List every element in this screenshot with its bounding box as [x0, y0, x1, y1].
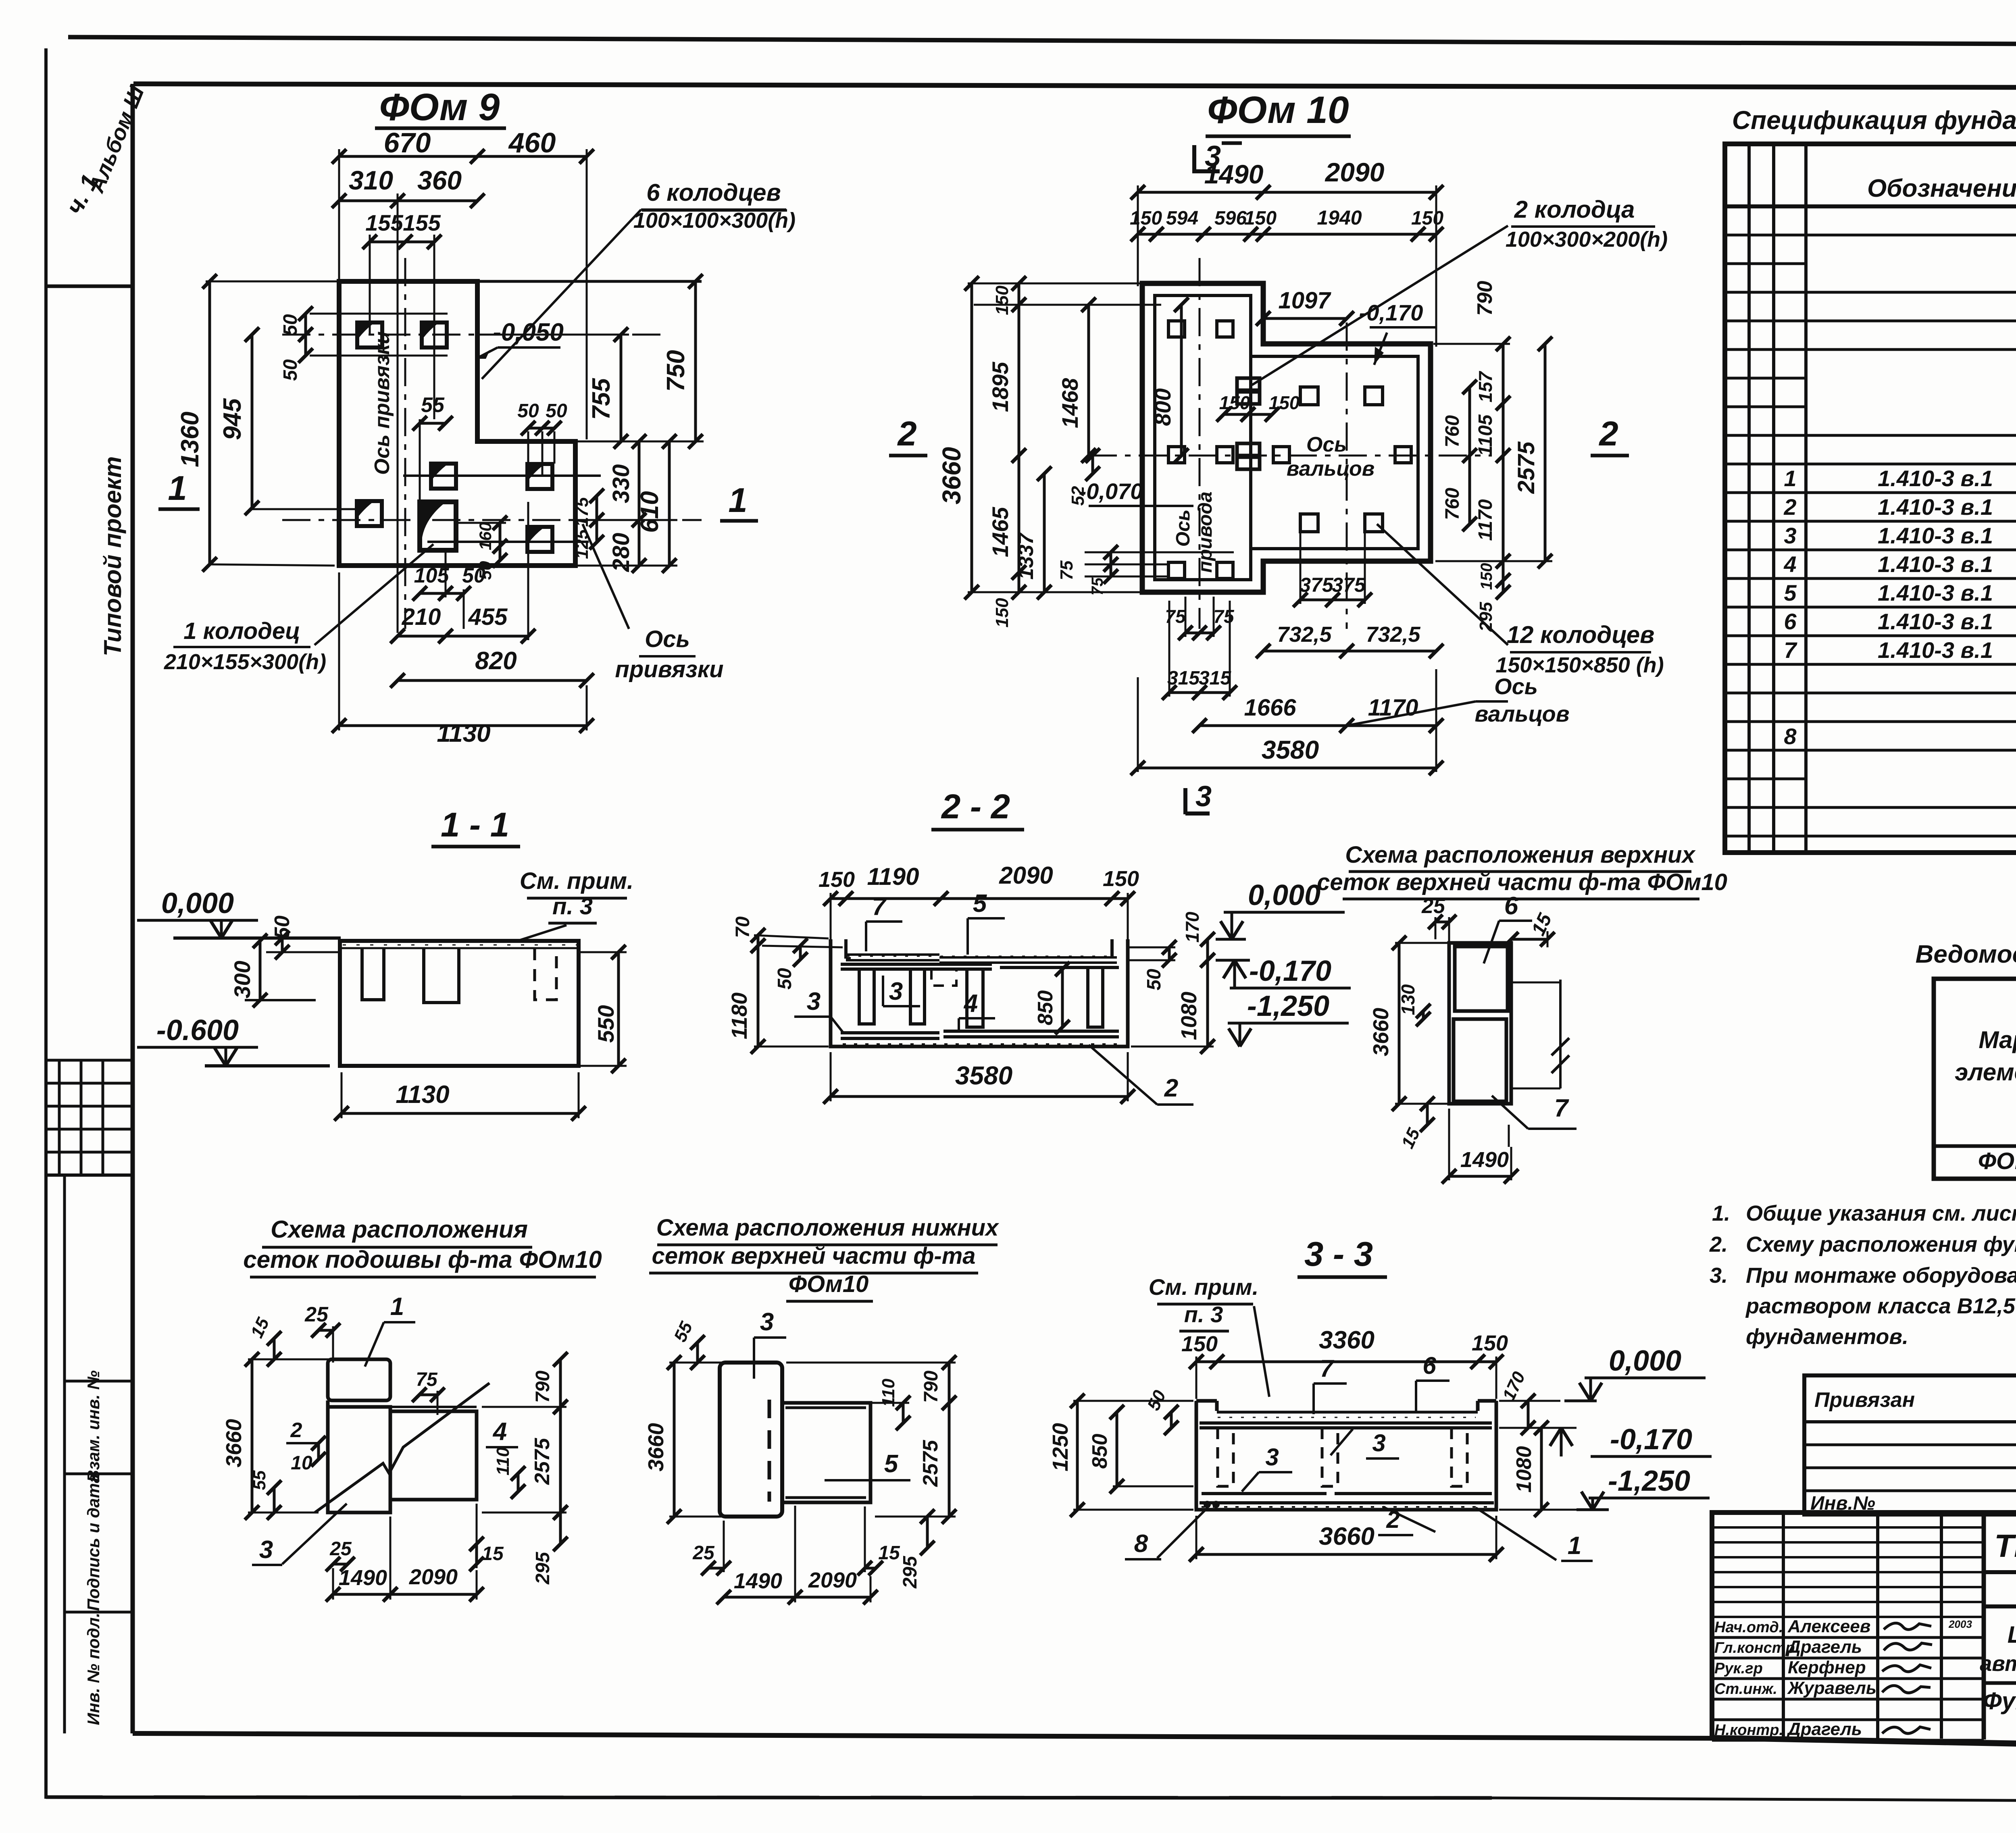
- plan FOm10 label 2 wells leader: [1252, 226, 1508, 385]
- svg-text:См. прим.: См. прим.: [520, 868, 633, 894]
- sheet outer left edge: [44, 48, 48, 1799]
- scheme upper meshes dim 3660: [1398, 943, 1401, 1104]
- section 3-3 dim 3660 bottom: [1196, 1553, 1496, 1556]
- svg-text:170: 170: [1182, 911, 1203, 942]
- section 2-2 left wall inner: [844, 939, 848, 959]
- svg-text:7: 7: [1320, 1355, 1334, 1382]
- scheme sole meshes dim 25 top: [319, 1329, 333, 1332]
- svg-text:130: 130: [1397, 984, 1418, 1015]
- svg-text:Привязан: Привязан: [1814, 1388, 1915, 1412]
- svg-text:2090: 2090: [409, 1565, 458, 1589]
- section 1-1 dim 50 top: [281, 938, 284, 952]
- section 2-2 dim 1180 left: [757, 946, 760, 1046]
- sheet outer bottom edge: [46, 1797, 1492, 1798]
- scheme sole meshes dim 295 right: [559, 1513, 562, 1544]
- plan FOm9 well square 1: [357, 322, 382, 347]
- plan FOm10 dim 150/594/596/150/1940/150: [1138, 233, 1436, 236]
- section 3-3 right dim 1080: [1540, 1428, 1543, 1510]
- svg-text:5: 5: [1784, 580, 1797, 605]
- svg-text:1130: 1130: [437, 720, 490, 747]
- scheme sole meshes dim 790 right: [559, 1359, 562, 1407]
- svg-text:160: 160: [476, 522, 495, 550]
- svg-text:1666: 1666: [1244, 695, 1296, 721]
- svg-text:150: 150: [1103, 867, 1139, 891]
- section 3-3 leader from label: [1254, 1306, 1269, 1397]
- svg-text:50: 50: [280, 314, 301, 336]
- plan FOm10 section mark 3 top: [1192, 145, 1196, 173]
- svg-text:100×100×300(h): 100×100×300(h): [633, 208, 796, 233]
- svg-text:Гл.констр: Гл.констр: [1714, 1639, 1795, 1656]
- svg-text:Н.контр.: Н.контр.: [1714, 1722, 1783, 1739]
- svg-text:0,000: 0,000: [161, 887, 234, 920]
- section 2-2 dim 70 left: [757, 935, 760, 946]
- svg-text:Ведомость расхода стали на эле: Ведомость расхода стали на элемент, kг: [1916, 940, 2016, 968]
- svg-text:Фундаменты ФОм9;: Фундаменты ФОм9;: [1983, 1687, 2016, 1714]
- section 3-3 label 2 leader: [1383, 1507, 1435, 1532]
- svg-text:945: 945: [219, 398, 246, 440]
- svg-text:-0.600: -0.600: [156, 1014, 239, 1046]
- svg-text:1.410-3 в.1: 1.410-3 в.1: [1878, 580, 1993, 605]
- svg-text:-1,250: -1,250: [1608, 1465, 1690, 1497]
- svg-text:150: 150: [1244, 208, 1277, 229]
- svg-text:330: 330: [608, 464, 634, 503]
- drawing frame top border: [133, 84, 2016, 88]
- svg-text:150: 150: [1181, 1332, 1218, 1356]
- svg-text:2 - 2: 2 - 2: [941, 788, 1010, 826]
- svg-text:1080: 1080: [1177, 992, 1201, 1040]
- section 3-3 inner label 3 leader: [1331, 1429, 1353, 1455]
- svg-text:0,000: 0,000: [1609, 1345, 1681, 1377]
- steel table grid: [1934, 979, 2016, 1179]
- svg-text:210×155×300(h): 210×155×300(h): [164, 650, 326, 674]
- svg-text:2: 2: [897, 415, 916, 453]
- scheme sole meshes dim 75: [419, 1394, 437, 1396]
- plan FOm9 dim 125/175 right: [596, 496, 598, 542]
- svg-text:Подпись и дата: Подпись и дата: [84, 1474, 103, 1611]
- svg-text:Керфнер: Керфнер: [1788, 1658, 1866, 1677]
- svg-text:1490: 1490: [1460, 1148, 1509, 1172]
- drawing frame left border: [131, 84, 135, 1733]
- svg-text:2090: 2090: [1325, 157, 1385, 187]
- svg-text:460: 460: [508, 127, 556, 158]
- title block lower divider: [1984, 1681, 2016, 1685]
- svg-text:сеток верхней части ф-та ФОм10: сеток верхней части ф-та ФОм10: [1317, 869, 1727, 895]
- svg-text:1: 1: [1568, 1532, 1581, 1560]
- plan FOm9 dim 820 below: [398, 679, 587, 682]
- section 3-3 dashed slot 1: [1218, 1428, 1233, 1486]
- svg-text:Драгель: Драгель: [1786, 1637, 1862, 1657]
- svg-text:-0,070: -0,070: [1079, 479, 1143, 504]
- svg-text:75: 75: [1057, 560, 1077, 580]
- section 1-1 body: [340, 941, 579, 1066]
- scheme upper meshes dim 1490: [1449, 1175, 1511, 1178]
- section 1-1 lower level line: [205, 1064, 330, 1067]
- section 2-2 body outline: [831, 939, 1128, 1046]
- svg-text:2: 2: [290, 1419, 302, 1442]
- plan FOm9 square row line low: [427, 541, 589, 543]
- svg-text:1250: 1250: [1048, 1423, 1073, 1471]
- section 2-2 dim 850: [1061, 969, 1064, 1027]
- svg-text:755: 755: [587, 378, 615, 420]
- plan FOm10 dim 3580: [1138, 767, 1436, 770]
- svg-text:2003: 2003: [1948, 1618, 1972, 1630]
- scheme sole meshes dim 110: [517, 1473, 520, 1492]
- left column top box border: [46, 285, 133, 288]
- plan FOm10 axis vertical privoda: [1199, 258, 1201, 629]
- svg-text:Ось: Ось: [1173, 510, 1194, 547]
- scheme sole meshes dim 15 bottom right: [475, 1544, 478, 1564]
- title block signatures scribbles: [1884, 1623, 1931, 1629]
- svg-text:1.: 1.: [1712, 1201, 1730, 1225]
- svg-text:Рук.гр: Рук.гр: [1714, 1660, 1763, 1677]
- svg-text:Обозначение: Обозначение: [1867, 175, 2016, 202]
- svg-text:125: 125: [572, 529, 592, 559]
- section 2-2 well slot 2: [910, 969, 925, 1024]
- svg-text:25: 25: [329, 1538, 352, 1560]
- section 3-3 dim 850 left: [1116, 1412, 1118, 1486]
- scheme upper meshes inner rect 1: [1455, 947, 1508, 1011]
- svg-text:Ось: Ось: [1494, 674, 1538, 699]
- svg-text:75: 75: [1213, 606, 1235, 627]
- scheme lower meshes dim 1490/2090: [724, 1596, 871, 1599]
- svg-text:150: 150: [818, 868, 855, 892]
- svg-text:8: 8: [1784, 724, 1797, 749]
- svg-text:50: 50: [280, 359, 301, 381]
- plan FOm9 square row line mid: [403, 474, 601, 477]
- svg-text:автомобильных шин.: автомобильных шин.: [1980, 1652, 2016, 1676]
- left column cell Vzam.inv.N: [46, 1173, 133, 1177]
- plan FOm9 label 1 well leader: [314, 544, 433, 645]
- svg-text:732,5: 732,5: [1366, 622, 1420, 647]
- sheet outer top edge: [68, 37, 2016, 46]
- plan FOm9 dim 670/460: [339, 155, 587, 158]
- plan FOm9 well square 6: [527, 527, 552, 552]
- svg-text:1337: 1337: [1014, 532, 1038, 580]
- section 1-1 slot dashed: [535, 948, 556, 1000]
- svg-text:760: 760: [1442, 415, 1463, 447]
- section 3-3 label 1 leader: [1476, 1508, 1556, 1560]
- plan FOm9 top edge extension line: [477, 280, 702, 283]
- plan FOm10 well double top: [1237, 378, 1260, 390]
- scheme sole meshes dim 2575 right: [559, 1407, 562, 1513]
- plan FOm10 inner wall right rect: [1251, 356, 1418, 549]
- left column approval stamp grid: [46, 1059, 133, 1062]
- svg-text:3: 3: [1372, 1429, 1385, 1456]
- plan FOm10 dim 2575 right: [1544, 344, 1547, 561]
- svg-text:150: 150: [1478, 563, 1495, 590]
- svg-text:10: 10: [291, 1452, 312, 1474]
- svg-text:раствором класса В12,5 . Толщ: раствором класса В12,5 . Толщина указана…: [1745, 1294, 2016, 1318]
- plan FOm9 dim 755 right: [620, 335, 623, 441]
- scheme sole meshes dim 3660 left: [251, 1359, 254, 1513]
- svg-text:2090: 2090: [999, 862, 1053, 889]
- svg-text:55: 55: [421, 393, 445, 417]
- svg-text:25: 25: [1421, 895, 1445, 918]
- svg-text:1.410-3 в.1: 1.410-3 в.1: [1878, 523, 1993, 548]
- section 1-1 ground line left: [173, 936, 341, 940]
- svg-text:1.410-3 в.1: 1.410-3 в.1: [1878, 637, 1993, 663]
- svg-text:375: 375: [1300, 574, 1334, 596]
- spec table content row lines: [1806, 234, 2016, 237]
- scheme sole meshes diagonal break line: [315, 1383, 489, 1513]
- svg-text:295: 295: [532, 1552, 554, 1585]
- plan FOm10 label 12 wells leader: [1377, 524, 1508, 645]
- svg-text:596: 596: [1214, 208, 1247, 229]
- svg-text:1490: 1490: [1204, 159, 1264, 189]
- plan FOm10 dim 1666/1170: [1200, 724, 1436, 727]
- svg-text:Нач.отд.: Нач.отд.: [1714, 1619, 1783, 1636]
- plan FOm10 dim 790/150 right: [1502, 344, 1505, 403]
- plan FOm10 well double mid: [1237, 443, 1260, 456]
- section 2-2 well slot 1: [859, 969, 874, 1024]
- svg-text:2575: 2575: [1513, 441, 1539, 494]
- plan FOm9 well square 4: [527, 464, 552, 489]
- svg-text:3660: 3660: [937, 447, 966, 504]
- svg-text:Журавель: Журавель: [1787, 1678, 1876, 1698]
- plan FOm10 section mark 3 bottom: [1183, 788, 1187, 814]
- svg-text:1190: 1190: [867, 863, 919, 890]
- plan FOm9 outline: [339, 281, 575, 566]
- svg-text:790: 790: [532, 1371, 554, 1403]
- section 1-1 slot 2: [424, 948, 459, 1003]
- section 1-1 top hatch strip: [340, 947, 579, 949]
- svg-text:При монтаже оборудования выпол: При монтаже оборудования выполнить подли…: [1746, 1263, 2016, 1288]
- scheme lower meshes dim 110: [902, 1403, 905, 1423]
- svg-text:3: 3: [1265, 1444, 1279, 1471]
- svg-text:3: 3: [889, 978, 903, 1005]
- svg-text:760: 760: [1442, 488, 1463, 520]
- scheme upper meshes dim 130: [1422, 1011, 1425, 1019]
- svg-text:3: 3: [1195, 780, 1212, 813]
- scheme upper meshes dim 15 right: [1511, 938, 1547, 941]
- plan FOm9 dim 310/360: [339, 200, 477, 202]
- plan FOm9 vertical axis privyazki: [404, 258, 406, 629]
- scheme lower meshes dim 3660: [673, 1363, 676, 1517]
- scheme lower meshes dim 15: [865, 1567, 876, 1570]
- svg-text:Взам. инв. №: Взам. инв. №: [84, 1370, 103, 1482]
- svg-text:вальцов: вальцов: [1287, 457, 1375, 481]
- plan FOm9 well square 5: [357, 501, 382, 526]
- svg-text:1130: 1130: [396, 1081, 449, 1109]
- scheme sole meshes top connect lines: [326, 1400, 330, 1407]
- svg-text:50: 50: [546, 400, 567, 422]
- scheme sole meshes outline left part: [328, 1407, 390, 1513]
- svg-text:50: 50: [462, 564, 485, 587]
- svg-text:594: 594: [1166, 208, 1198, 229]
- svg-text:0,000: 0,000: [1248, 879, 1320, 911]
- svg-text:790: 790: [921, 1371, 942, 1403]
- svg-text:сеток верхней части ф-та: сеток верхней части ф-та: [652, 1243, 975, 1269]
- svg-text:Драгель: Драгель: [1786, 1719, 1862, 1739]
- plan FOm10 wells mid row: [1168, 447, 1185, 463]
- svg-text:7: 7: [1784, 637, 1797, 663]
- plan FOm9 dim 155/155: [370, 241, 434, 243]
- plan FOm9 big well 210x155: [420, 502, 456, 550]
- svg-text:5: 5: [884, 1450, 899, 1478]
- svg-text:3: 3: [760, 1308, 774, 1336]
- svg-text:3660: 3660: [1369, 1008, 1393, 1056]
- svg-text:550: 550: [593, 1005, 619, 1042]
- svg-text:1: 1: [728, 481, 747, 520]
- section 2-2 well slot 4: [1088, 969, 1103, 1027]
- scheme lower meshes dim 25: [708, 1567, 724, 1570]
- svg-text:7: 7: [872, 893, 887, 921]
- svg-text:п. 3: п. 3: [1184, 1302, 1223, 1327]
- svg-text:1 - 1: 1 - 1: [441, 806, 509, 844]
- svg-text:150: 150: [1269, 392, 1300, 413]
- plan FOm9 dim 55: [420, 422, 446, 425]
- svg-text:1: 1: [168, 469, 187, 508]
- plan FOm10 dim 52 small: [1091, 456, 1094, 474]
- svg-text:элемента: элемента: [1955, 1059, 2016, 1086]
- svg-text:3360: 3360: [1319, 1326, 1375, 1354]
- svg-text:1490: 1490: [339, 1566, 387, 1590]
- svg-text:4: 4: [492, 1418, 507, 1446]
- scheme sole meshes dim 1490/2090 bottom: [333, 1593, 477, 1596]
- section 2-2 top slab mesh lines: [846, 953, 939, 956]
- scheme sole meshes diagonal 3 leader: [282, 1504, 347, 1564]
- svg-text:2: 2: [1598, 415, 1618, 453]
- svg-text:850: 850: [1088, 1434, 1112, 1469]
- plan FOm9 dim 50/50 left top: [304, 314, 307, 356]
- privyazan table outline: [1804, 1375, 2016, 1515]
- plan FOm10 dim 3660 left: [971, 283, 973, 592]
- scheme sole meshes mesh1 rect: [328, 1359, 390, 1400]
- svg-text:5: 5: [973, 890, 987, 917]
- section 3-3 top dim 150/3360/150: [1196, 1361, 1496, 1363]
- title block outline: [1712, 1513, 2016, 1751]
- svg-text:6: 6: [1784, 609, 1797, 634]
- svg-text:Алексеев: Алексеев: [1787, 1617, 1870, 1636]
- svg-text:1940: 1940: [1317, 206, 1362, 229]
- svg-text:300: 300: [229, 961, 255, 998]
- svg-text:1 колодец: 1 колодец: [183, 618, 300, 644]
- svg-text:Цех по ремонту: Цех по ремонту: [2008, 1622, 2016, 1648]
- svg-text:ФОм 9: ФОм 9: [379, 86, 500, 129]
- svg-text:1895: 1895: [987, 362, 1013, 412]
- scheme sole meshes outline right part: [390, 1411, 477, 1500]
- plan FOm9 dim 50/50 mid: [528, 427, 554, 430]
- svg-text:1465: 1465: [987, 507, 1013, 557]
- svg-text:3660: 3660: [644, 1423, 668, 1471]
- section 3-3 left wall step: [1196, 1399, 1217, 1403]
- svg-text:3: 3: [1784, 523, 1796, 548]
- plan FOm9 dim 1130 below: [339, 724, 587, 727]
- svg-text:2: 2: [1386, 1506, 1400, 1533]
- svg-text:155: 155: [403, 210, 441, 235]
- svg-text:фундаментов.: фундаментов.: [1746, 1325, 1908, 1349]
- svg-text:157: 157: [1475, 370, 1496, 402]
- svg-text:См. прим.: См. прим.: [1149, 1274, 1259, 1300]
- svg-text:1080: 1080: [1512, 1446, 1536, 1493]
- svg-text:-0,170: -0,170: [1249, 955, 1331, 987]
- section 2-2 right dim 50: [1168, 947, 1171, 960]
- svg-text:150: 150: [992, 598, 1012, 628]
- svg-text:315: 315: [1199, 668, 1231, 689]
- svg-text:3660: 3660: [222, 1419, 246, 1467]
- svg-text:15: 15: [878, 1542, 900, 1564]
- svg-text:1: 1: [390, 1293, 404, 1321]
- svg-text:Схема расположения верхних: Схема расположения верхних: [1345, 842, 1696, 868]
- svg-text:7: 7: [1554, 1094, 1569, 1122]
- svg-text:4: 4: [1783, 551, 1796, 577]
- plan FOm9 well square 3: [431, 464, 456, 489]
- svg-text:155: 155: [365, 210, 403, 235]
- spec table grid: [1725, 144, 2016, 853]
- svg-text:Ст.инж.: Ст.инж.: [1714, 1681, 1777, 1698]
- svg-text:75: 75: [1165, 606, 1186, 627]
- svg-text:Типовой проект: Типовой проект: [99, 456, 126, 656]
- section 2-2 bottom mesh lines: [841, 1031, 939, 1034]
- svg-text:6 колодцев: 6 колодцев: [646, 179, 781, 206]
- plan FOm9 dim 750 right: [694, 281, 697, 441]
- section 2-2 right wall inner: [1110, 939, 1114, 959]
- svg-text:2090: 2090: [808, 1568, 857, 1592]
- plan FOm10 dim 1468 left: [1087, 305, 1090, 456]
- svg-text:55: 55: [250, 1470, 269, 1490]
- plan FOm10 dim 800: [1180, 305, 1183, 456]
- scheme upper meshes z dim right: [1559, 980, 1562, 1088]
- section 3-3 right dim 170: [1527, 1401, 1530, 1428]
- title block signature rows top: [1712, 1526, 1984, 1529]
- svg-text:Общие указания см. листы 9,11: Общие указания см. листы 9,11,13: [1746, 1201, 2016, 1225]
- svg-text:1105: 1105: [1475, 414, 1496, 456]
- svg-text:150: 150: [1472, 1331, 1508, 1355]
- svg-text:-1,250: -1,250: [1247, 990, 1329, 1022]
- plan FOm10 dim 1490/2090: [1138, 191, 1436, 194]
- svg-text:310: 310: [349, 165, 393, 195]
- svg-text:1097: 1097: [1278, 287, 1331, 314]
- svg-text:3660: 3660: [1319, 1523, 1375, 1550]
- scheme upper meshes outer rect: [1449, 943, 1511, 1104]
- svg-text:790: 790: [1473, 281, 1497, 316]
- scheme lower meshes dim 55: [696, 1342, 699, 1363]
- svg-text:105: 105: [414, 564, 450, 587]
- scheme upper meshes inner rect 2: [1454, 1019, 1506, 1101]
- plan FOm10 wells row1: [1168, 321, 1185, 337]
- svg-text:Марка: Марка: [1979, 1026, 2016, 1053]
- svg-text:15: 15: [482, 1543, 504, 1565]
- svg-text:800: 800: [1150, 388, 1175, 426]
- svg-text:Ось: Ось: [645, 626, 690, 652]
- plan FOm10 outline: [1142, 283, 1431, 592]
- plan FOm10 axis horizontal: [1089, 455, 1492, 457]
- svg-text:привязки: привязки: [615, 656, 723, 682]
- svg-text:2: 2: [1783, 494, 1796, 520]
- plan FOm10 dim 1337 left: [1043, 474, 1046, 592]
- svg-text:2575: 2575: [531, 1438, 554, 1485]
- plan FOm10 inner wall left rect: [1155, 295, 1251, 580]
- section 3-3 dim 1250 left: [1076, 1401, 1079, 1510]
- drawing frame bottom border: [133, 1733, 1712, 1738]
- svg-text:12 колодцев: 12 колодцев: [1507, 621, 1655, 648]
- svg-text:3 - 3: 3 - 3: [1304, 1235, 1373, 1273]
- plan FOm9 label axis privyazki right: [583, 524, 629, 629]
- svg-text:1.410-3 в.1: 1.410-3 в.1: [1878, 494, 1993, 520]
- svg-text:1: 1: [1784, 466, 1796, 491]
- plan FOm9 dim 210/455 below: [398, 635, 528, 638]
- svg-text:Схема расположения: Схема расположения: [271, 1216, 528, 1243]
- svg-text:Спецификация фундаментов ФОм: Спецификация фундаментов ФОм9, ФОп10: [1732, 106, 2016, 135]
- svg-text:2: 2: [1164, 1074, 1178, 1102]
- svg-text:50: 50: [1143, 969, 1165, 990]
- left column cell Inv.N podl.: [65, 1611, 133, 1614]
- plan FOm10 dim 75/75 bottom: [1185, 632, 1214, 635]
- section 3-3 dashed slot 2: [1322, 1428, 1338, 1486]
- title block signature columns: [1782, 1513, 1785, 1739]
- plan FOm9 dim 1360 left: [208, 281, 211, 564]
- svg-text:1490: 1490: [734, 1569, 782, 1593]
